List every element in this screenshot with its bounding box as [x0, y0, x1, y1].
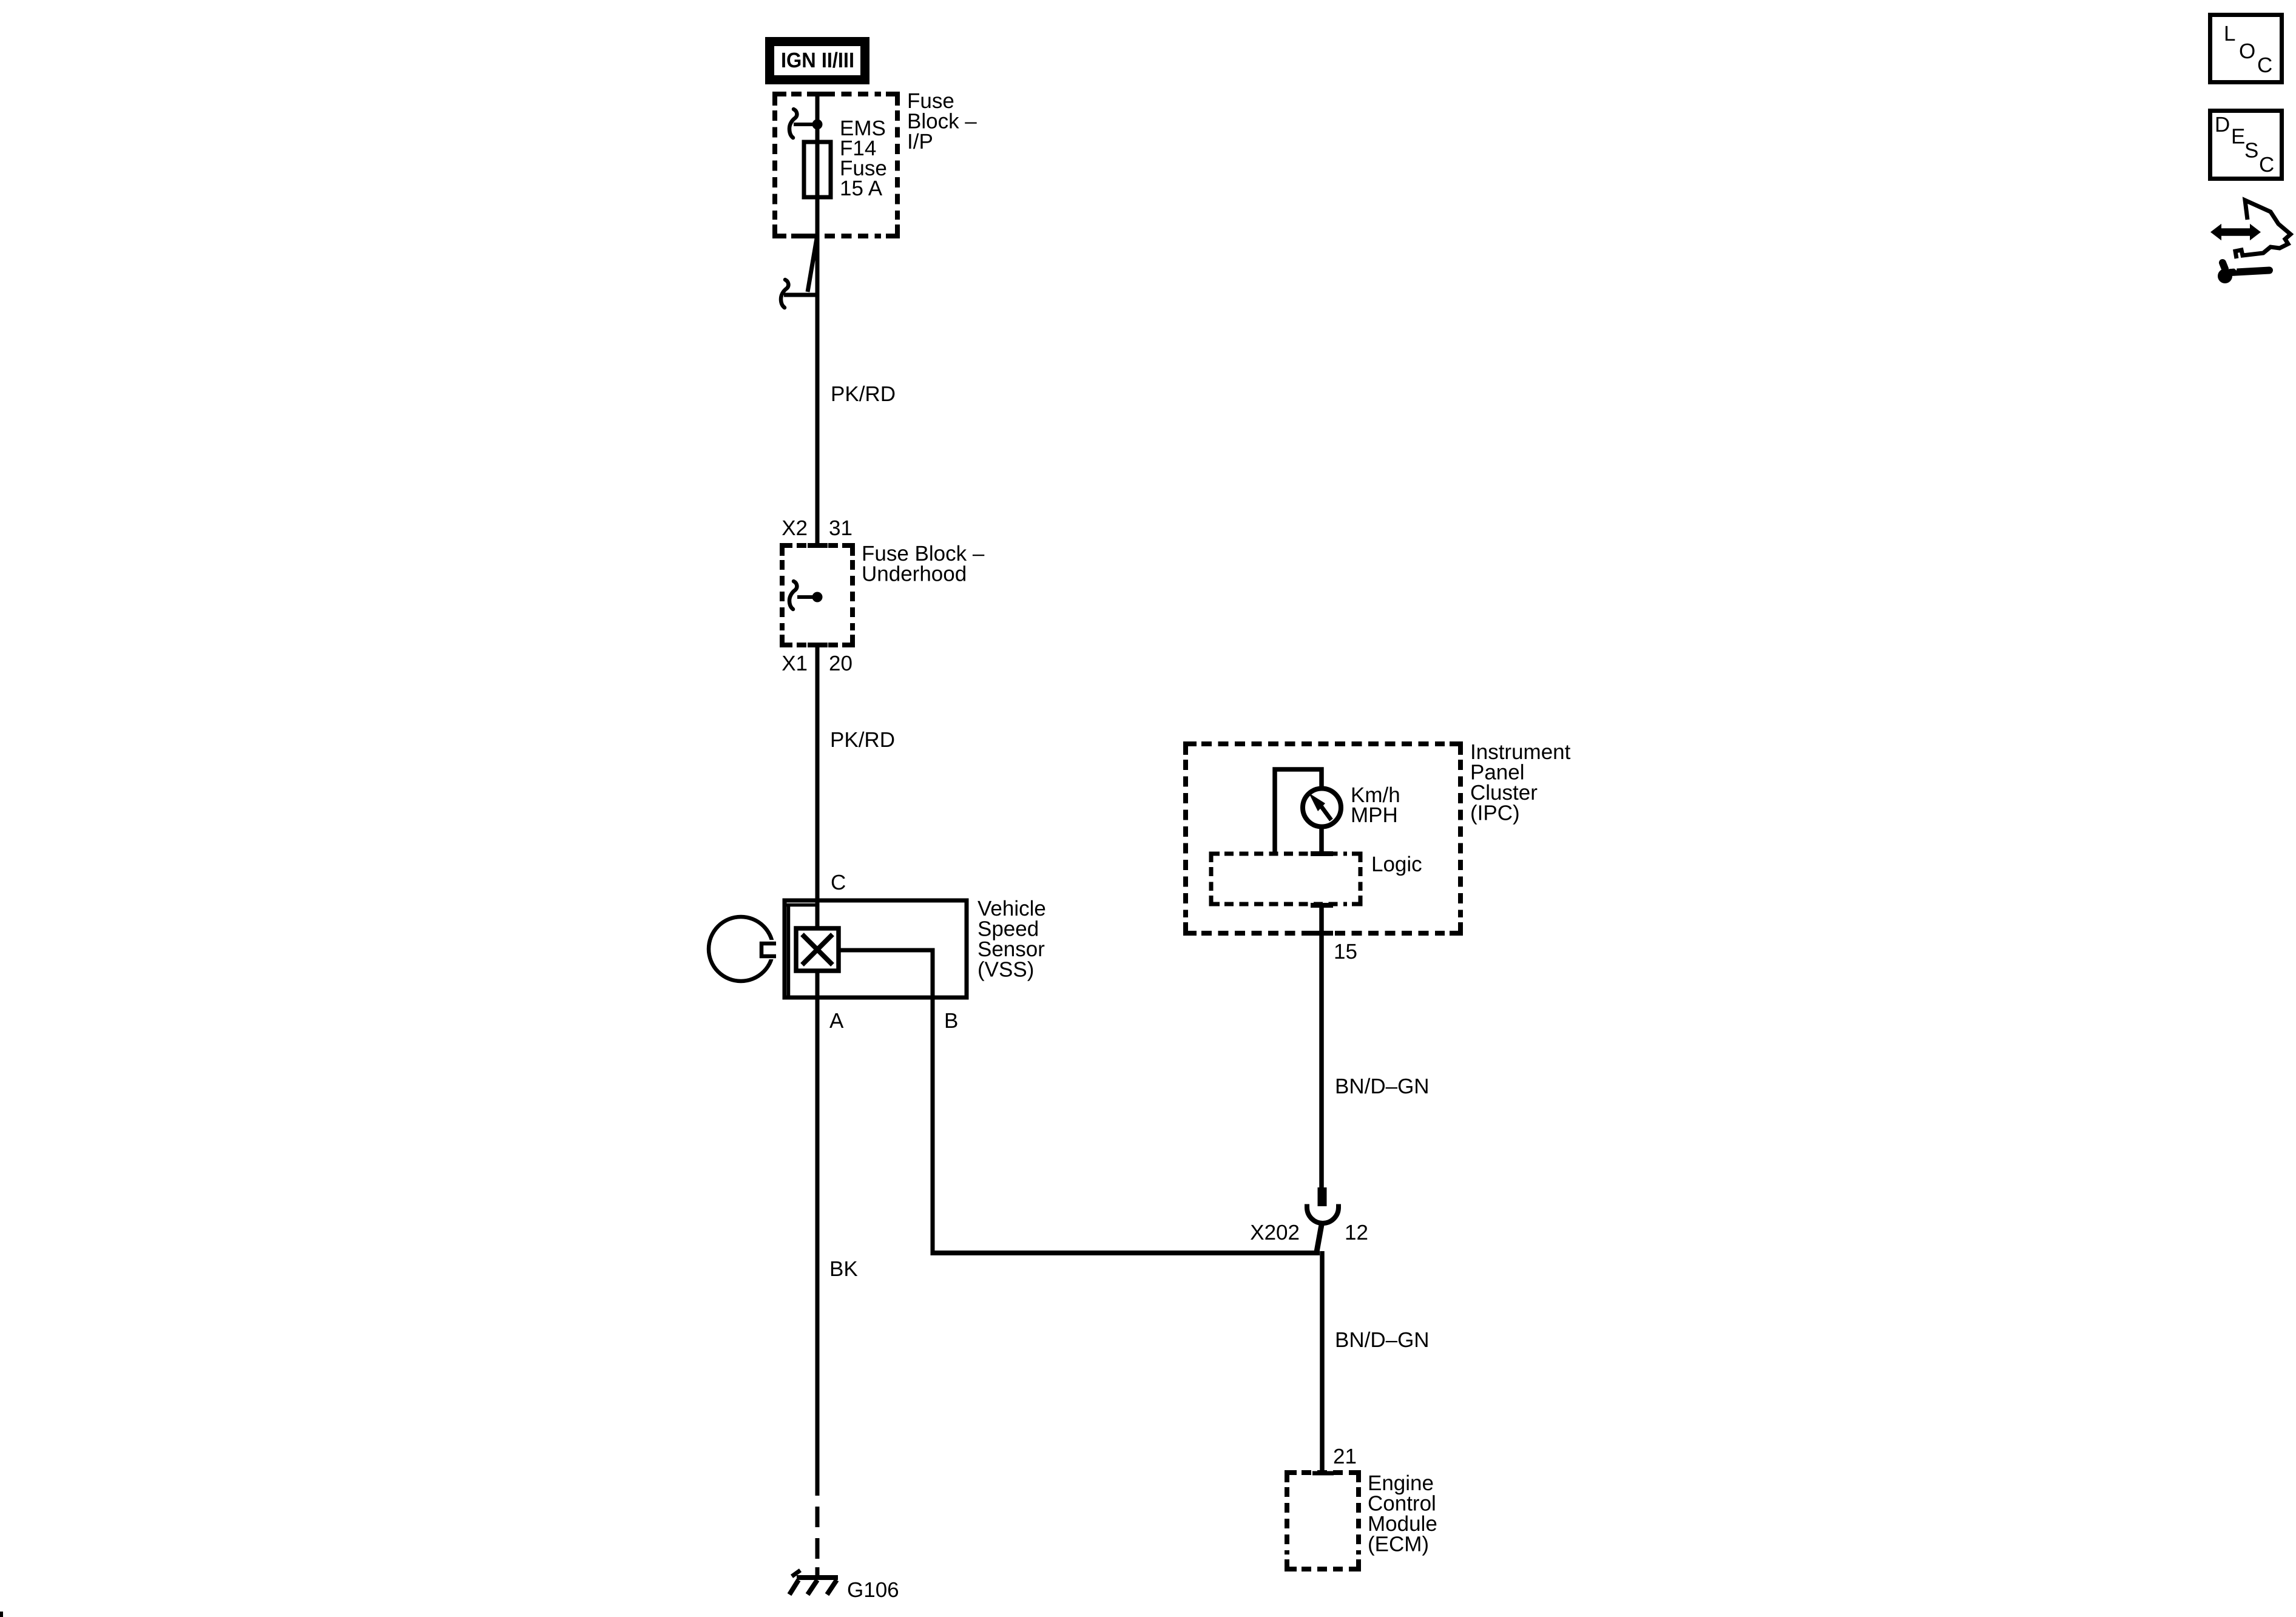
svg-text:D: D	[2215, 113, 2230, 137]
IPC dashed box	[1186, 744, 1460, 933]
junction dot (underhood)	[812, 592, 823, 603]
dashed ground lead	[815, 1507, 820, 1576]
tick: wire crossing IPC box bottom	[1311, 931, 1333, 936]
svg-text:BN/D–GN: BN/D–GN	[1335, 1328, 1430, 1352]
svg-text:O: O	[2239, 39, 2255, 63]
tick: wire crossing underhood box bottom	[808, 643, 828, 647]
svg-text:C: C	[831, 871, 846, 894]
svg-text:21: 21	[1333, 1445, 1357, 1468]
wire: B output (X-box to right, down, across)	[839, 948, 933, 953]
svg-text:Underhood: Underhood	[862, 562, 967, 586]
svg-text:(VSS): (VSS)	[977, 958, 1034, 982]
DESC nav box	[2210, 111, 2282, 179]
gauge bottom lead	[1319, 828, 1324, 854]
svg-text:E: E	[2231, 125, 2245, 149]
diagnostic icon: outline arrow	[2235, 200, 2291, 258]
svg-text:A: A	[829, 1009, 844, 1033]
svg-text:IGN II/III: IGN II/III	[781, 49, 854, 72]
speedometer gauge circle	[1303, 789, 1341, 827]
diagnostic icon: double arrow	[2210, 224, 2261, 240]
svg-text:20: 20	[829, 652, 853, 675]
ground G106	[789, 1570, 838, 1595]
speedometer gauge loop wire	[1275, 769, 1322, 854]
connector X202: lead to junction	[1317, 1221, 1322, 1252]
svg-text:G106: G106	[847, 1578, 899, 1602]
svg-text:X1: X1	[782, 652, 808, 675]
LOC nav box	[2210, 15, 2282, 83]
VSS component box	[785, 900, 967, 998]
tick: wire crossing underhood box top	[808, 543, 828, 548]
junction dot (fuse feed)	[812, 120, 823, 130]
wire PK/RD lower run	[815, 645, 820, 931]
T-bar terminal at logic box bottom	[1311, 903, 1333, 908]
gauge needle	[1320, 805, 1331, 820]
sensor element X-box	[796, 928, 839, 971]
svg-text:12: 12	[1345, 1221, 1368, 1244]
tick: wire crossing I/P box bottom	[799, 234, 819, 238]
terminal hook (underhood)	[789, 581, 813, 609]
diagnostic icon: wrench	[2218, 262, 2269, 283]
svg-text:BN/D–GN: BN/D–GN	[1335, 1075, 1430, 1098]
wire PK/RD upper run	[815, 237, 820, 545]
svg-text:B: B	[944, 1009, 958, 1033]
ECM dashed box	[1287, 1473, 1359, 1569]
svg-text:31: 31	[829, 516, 853, 540]
wire: A ground run (BK)	[815, 971, 820, 1496]
logic dashed box	[1211, 854, 1360, 904]
svg-text:PK/RD: PK/RD	[830, 728, 895, 752]
svg-text:BK: BK	[829, 1257, 858, 1281]
wire: fuse block feed (vertical through fuse)	[815, 94, 820, 237]
svg-text:(ECM): (ECM)	[1368, 1533, 1429, 1556]
svg-text:Logic: Logic	[1371, 852, 1422, 876]
tick: wire crossing I/P box top	[807, 92, 828, 96]
fuse block output terminal (blade + hook)	[781, 238, 817, 308]
svg-text:PK/RD: PK/RD	[831, 382, 896, 406]
svg-text:15 A: 15 A	[840, 177, 883, 200]
svg-text:15: 15	[1334, 940, 1357, 964]
sensor rotor circle with notch	[709, 917, 780, 981]
svg-text:L: L	[2224, 22, 2235, 46]
wire: IPC pin 15 down to X202	[1319, 904, 1324, 1188]
wire: X202 junction down to ECM (BN/D-GN)	[1320, 1251, 1325, 1473]
connector X202: male pin	[1318, 1187, 1327, 1206]
fuse EMS F14 15A	[804, 142, 831, 197]
T-bar terminal at ECM top	[1312, 1471, 1334, 1476]
fuse block I/P dashed box	[775, 94, 897, 236]
fuse block underhood dashed box	[782, 545, 853, 645]
terminal hook (upper, in I/P fuse block)	[789, 109, 813, 138]
svg-text:C: C	[2257, 53, 2272, 77]
svg-text:(IPC): (IPC)	[1470, 802, 1520, 825]
connector X202: female cup	[1307, 1207, 1339, 1223]
svg-text:MPH: MPH	[1351, 803, 1398, 827]
svg-text:I/P: I/P	[907, 130, 933, 154]
T-bar terminal at logic box top	[1311, 851, 1333, 856]
svg-text:S: S	[2244, 139, 2258, 163]
svg-text:C: C	[2259, 153, 2274, 177]
page corner mark	[0, 1612, 3, 1617]
svg-text:X2: X2	[782, 516, 808, 540]
svg-text:X202: X202	[1250, 1221, 1300, 1244]
power feed box IGN II/III	[765, 37, 869, 84]
